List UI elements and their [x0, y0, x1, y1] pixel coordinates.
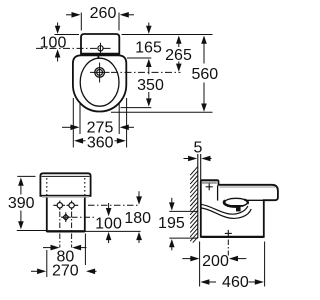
svg-text:350: 350 [137, 77, 164, 94]
svg-text:260: 260 [90, 5, 117, 22]
svg-text:180: 180 [124, 210, 151, 227]
svg-text:270: 270 [52, 263, 79, 280]
svg-text:5: 5 [194, 140, 203, 157]
svg-text:390: 390 [8, 195, 35, 212]
svg-text:360: 360 [87, 134, 114, 151]
svg-text:200: 200 [202, 253, 229, 270]
svg-text:100: 100 [95, 215, 122, 232]
svg-text:195: 195 [158, 215, 185, 232]
svg-text:460: 460 [222, 274, 249, 291]
svg-text:165: 165 [135, 39, 162, 56]
svg-text:265: 265 [165, 47, 192, 64]
svg-text:560: 560 [191, 66, 218, 83]
svg-text:100: 100 [40, 34, 67, 51]
